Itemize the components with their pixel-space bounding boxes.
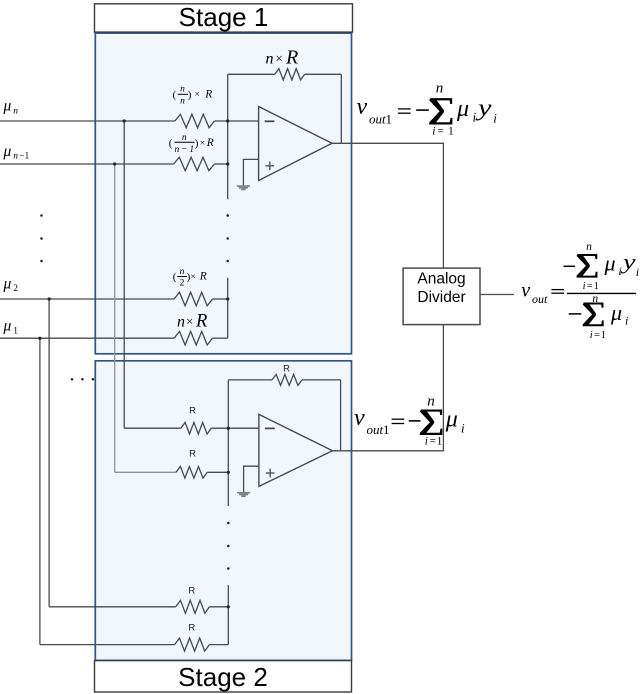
svg-text:=: = xyxy=(429,435,436,447)
svg-text:n − 1: n − 1 xyxy=(174,145,194,155)
svg-text:n: n xyxy=(177,314,185,331)
svg-text:n: n xyxy=(13,106,18,116)
svg-text:μ: μ xyxy=(456,96,469,122)
svg-text:i: i xyxy=(493,111,497,126)
svg-text:n: n xyxy=(266,51,274,68)
svg-text:out: out xyxy=(367,422,384,437)
svg-text:×: × xyxy=(186,314,193,329)
svg-text:n: n xyxy=(180,96,185,106)
svg-text:i: i xyxy=(636,265,639,279)
svg-text:n: n xyxy=(586,241,592,253)
svg-text:(: ( xyxy=(173,89,177,101)
svg-text:μ: μ xyxy=(604,250,616,275)
svg-text:×: × xyxy=(195,90,200,100)
svg-text:R: R xyxy=(206,137,214,149)
svg-text:2: 2 xyxy=(180,279,185,289)
svg-text:μ: μ xyxy=(3,318,12,335)
svg-text:): ) xyxy=(188,89,192,101)
svg-text:n: n xyxy=(13,152,18,162)
svg-text:R: R xyxy=(189,448,196,459)
svg-text:μ: μ xyxy=(3,275,12,292)
svg-text:=: = xyxy=(594,330,600,341)
svg-text:R: R xyxy=(204,89,212,101)
svg-text:Stage 2: Stage 2 xyxy=(178,662,268,692)
svg-text:1: 1 xyxy=(601,330,606,341)
svg-text:R: R xyxy=(188,586,195,597)
svg-text:1: 1 xyxy=(594,281,599,292)
svg-text:1: 1 xyxy=(13,326,18,336)
svg-text:i: i xyxy=(583,281,586,292)
svg-text:R: R xyxy=(189,405,196,416)
svg-text:i: i xyxy=(618,264,621,278)
svg-text:i: i xyxy=(625,313,628,327)
svg-text:−1: −1 xyxy=(19,152,29,162)
svg-text:i: i xyxy=(590,330,593,341)
svg-text:y: y xyxy=(475,96,491,122)
svg-text:×: × xyxy=(276,51,283,66)
svg-text:μ: μ xyxy=(445,407,458,433)
svg-text:Analog: Analog xyxy=(417,270,465,287)
svg-text:μ: μ xyxy=(3,98,12,115)
svg-text:i: i xyxy=(432,126,435,138)
svg-text:R: R xyxy=(285,47,298,69)
svg-text:y: y xyxy=(620,249,635,274)
svg-text:2: 2 xyxy=(13,284,18,294)
svg-text:n: n xyxy=(182,133,187,143)
svg-text:Stage 1: Stage 1 xyxy=(179,2,269,32)
svg-text:1: 1 xyxy=(448,126,454,138)
svg-text:out: out xyxy=(532,292,548,306)
svg-text:1: 1 xyxy=(386,112,393,127)
svg-text:out: out xyxy=(369,112,386,127)
svg-text:1: 1 xyxy=(437,435,443,447)
svg-text:R: R xyxy=(283,363,290,374)
svg-text:i: i xyxy=(425,435,428,447)
svg-text:v: v xyxy=(521,280,530,302)
svg-text:n: n xyxy=(592,293,598,305)
svg-text:n: n xyxy=(180,85,185,95)
svg-text:=: = xyxy=(437,126,444,138)
svg-text:i: i xyxy=(461,421,465,436)
svg-text:n: n xyxy=(436,80,444,96)
svg-text:(: ( xyxy=(173,271,177,283)
svg-text:R: R xyxy=(195,312,207,332)
svg-text:1: 1 xyxy=(383,422,390,437)
svg-text:×: × xyxy=(200,139,205,149)
svg-text:μ: μ xyxy=(610,300,622,325)
svg-text:v: v xyxy=(354,405,365,431)
svg-text:μ: μ xyxy=(3,143,12,160)
svg-text:R: R xyxy=(199,271,207,283)
svg-text:n: n xyxy=(427,394,435,410)
svg-text:(: ( xyxy=(169,138,173,150)
svg-text:): ) xyxy=(195,138,199,150)
svg-text:n: n xyxy=(180,267,185,277)
svg-text:Divider: Divider xyxy=(417,289,465,306)
svg-text:×: × xyxy=(190,272,195,282)
svg-text:=: = xyxy=(587,281,593,292)
svg-text:v: v xyxy=(357,94,368,120)
svg-text:i: i xyxy=(473,110,477,125)
svg-text:R: R xyxy=(188,623,195,634)
